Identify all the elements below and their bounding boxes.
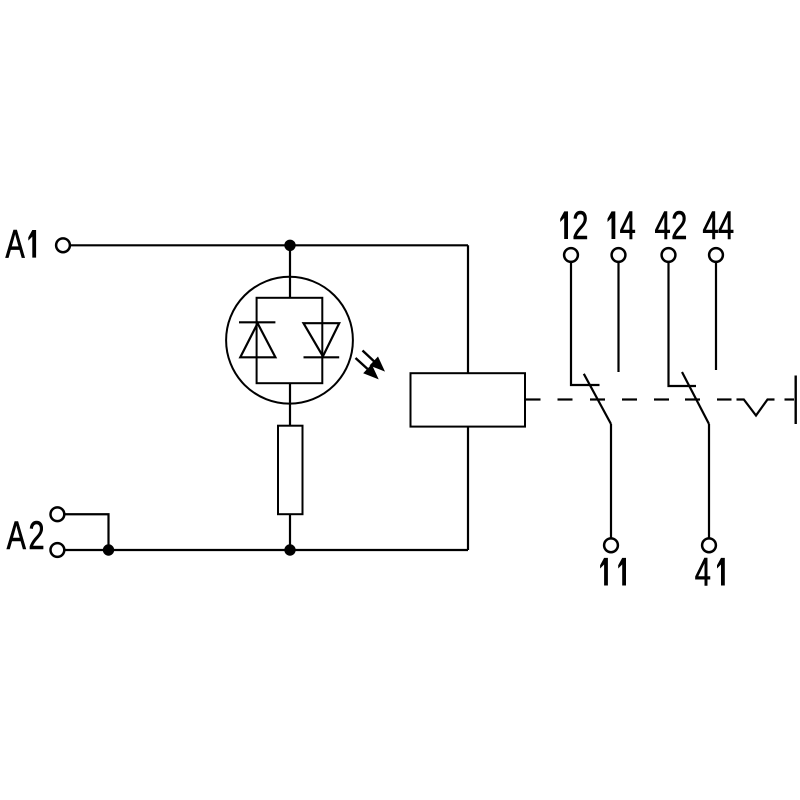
terminal 42	[662, 248, 676, 262]
LED emission arrow lower	[356, 358, 379, 379]
wire A2 upper jumper	[65, 514, 109, 550]
terminal 14	[612, 248, 626, 262]
inner rectangle wire loop	[257, 298, 323, 383]
resistor R1	[278, 426, 303, 515]
contact blade 1	[584, 374, 611, 424]
relay coil K1	[411, 373, 526, 426]
label 42	[655, 211, 686, 239]
diode D1 left triangle	[240, 323, 275, 357]
diode D1 left cathode bar	[239, 321, 275, 323]
linkage end dash	[785, 398, 795, 400]
linkage end bar	[795, 376, 797, 425]
wire resistor to A2 line	[289, 514, 291, 550]
terminal 11	[604, 538, 618, 552]
wire contact 42 with NC foot	[669, 262, 697, 386]
label 12	[560, 211, 587, 239]
contact blade 2	[682, 372, 709, 424]
diode D2 LED triangle	[304, 323, 340, 356]
wire contact 44	[715, 262, 717, 370]
LED emission arrow upper	[363, 351, 386, 372]
label 44	[703, 211, 733, 239]
terminal 41	[702, 538, 716, 552]
terminal A1	[56, 238, 70, 252]
label 11	[600, 558, 626, 586]
wire LED to resistor	[289, 383, 291, 426]
terminal 12	[564, 248, 578, 262]
wire common 41	[708, 424, 710, 539]
terminal A2 lower	[51, 543, 65, 557]
terminal A2 upper	[51, 507, 65, 521]
wire right vertical upper	[467, 245, 469, 373]
wire LED branch top	[289, 245, 291, 297]
linkage V notch	[737, 400, 775, 416]
wire contact 12 with NC foot	[571, 262, 600, 385]
wire A2 horizontal	[65, 549, 468, 551]
wire A1 horizontal	[70, 244, 468, 246]
label 41	[695, 558, 724, 586]
wire right vertical lower	[467, 427, 469, 550]
terminal 44	[709, 248, 723, 262]
node junction A2 resistor	[284, 544, 295, 555]
diode D2 LED cathode bar	[304, 356, 340, 358]
label 14	[608, 211, 635, 239]
LED indicator circle	[226, 277, 353, 404]
wire contact 14	[617, 262, 619, 372]
node junction A2 jumper	[103, 544, 114, 555]
label A1	[6, 230, 37, 258]
node junction on A1 line	[284, 240, 295, 251]
mechanical linkage dashed line	[525, 398, 731, 400]
wire common 11	[610, 424, 612, 539]
label A2	[7, 521, 43, 549]
